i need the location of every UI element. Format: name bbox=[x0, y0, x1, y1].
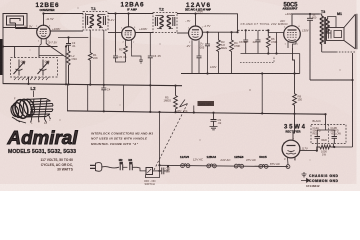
variable capacitor C1B bbox=[38, 60, 49, 76]
wire: osc feedback line bbox=[39, 56, 66, 58]
chassis ground legend bbox=[302, 172, 307, 177]
capacitor C5 screen bypass bbox=[113, 52, 126, 62]
wire: C14A lead to cathode line bbox=[316, 144, 318, 151]
junction bbox=[114, 12, 116, 14]
B- bus wire bbox=[67, 111, 326, 114]
wire: gang rotor to ground bus bbox=[28, 77, 30, 84]
wire: stub at volume tap bbox=[193, 106, 195, 113]
resistor R3 bbox=[217, 32, 221, 73]
heater pin V5 35W4 bbox=[286, 165, 290, 169]
wiper arrow of R5 bbox=[180, 100, 188, 108]
wire: T2 return with capacitor C6 bbox=[148, 33, 153, 112]
wire: R5 top to ground bus bbox=[175, 86, 177, 96]
variable capacitor C1A bbox=[14, 60, 25, 76]
heater pins V2 12BA6 bbox=[207, 164, 217, 168]
output transformer T3 bbox=[320, 14, 331, 52]
wire: V3 plate stub bbox=[195, 14, 197, 27]
resistor R7 bbox=[317, 144, 334, 151]
wire: link bus to ground bus bbox=[67, 84, 69, 110]
wire: antenna to V1 grid bbox=[16, 29, 38, 32]
tube V5 35W4 rectifier bbox=[282, 140, 317, 160]
label tube V1 12BE6 bbox=[36, 2, 59, 12]
wire: C1B stator up bbox=[38, 47, 40, 58]
IF transformer T2 bbox=[153, 13, 177, 33]
label tube V3 12AV6 bbox=[185, 2, 211, 12]
capacitor C9 bbox=[210, 113, 218, 130]
heater pins V4 50C5 bbox=[259, 164, 268, 168]
wire: speaker field drop bbox=[352, 53, 354, 80]
oscillator coil L3 bbox=[67, 51, 70, 84]
resistor R4 bbox=[230, 32, 234, 73]
loop antenna L1 spiral bbox=[3, 14, 27, 29]
wire: switch riser to B- bus bbox=[145, 112, 159, 178]
ground bus wire bbox=[3, 84, 182, 86]
wire: audio line bbox=[241, 53, 300, 55]
wire: T1 secondary return bbox=[103, 30, 105, 88]
wire: top bus T2 to audio coupling drop bbox=[177, 14, 238, 33]
wire: V3 cathode bbox=[197, 54, 202, 74]
wire: top bus T1 to T2 bbox=[108, 13, 153, 15]
wire: 12BA6 cathode to bus bbox=[132, 48, 144, 63]
capacitor C9b bbox=[256, 30, 261, 53]
wire: bus corner down to C14 bbox=[325, 114, 327, 124]
dashed bracket bbox=[240, 56, 274, 63]
label tube V2 12BA6 bbox=[121, 2, 144, 12]
wire: osc vertical to ground bus bbox=[65, 47, 67, 85]
coupling capacitor C10 bbox=[307, 14, 313, 80]
resistor R1 bbox=[88, 30, 92, 85]
wire: 50C5 cathode down bbox=[293, 48, 295, 94]
wire: V4 grid return bbox=[276, 33, 278, 54]
tuning gang C1 dashed box bbox=[11, 58, 58, 78]
wire: V1 plate top to T1 bbox=[44, 14, 84, 26]
heater pins V3 12AV6 bbox=[181, 164, 190, 168]
heater bus wire bbox=[160, 165, 289, 166]
speaker field dashed lead bbox=[322, 51, 336, 53]
wire: AVC line to tuning gang bbox=[3, 46, 58, 48]
wire: bus link riser bbox=[87, 85, 89, 112]
wire: heater into 35W4 pin3 bbox=[287, 158, 290, 165]
resistor R8 bbox=[293, 94, 297, 141]
tube V3 12AV6 detector bbox=[177, 26, 238, 54]
scan specks bbox=[30, 8, 341, 161]
wire: antenna return down left bbox=[2, 28, 4, 84]
electrolytic capacitor C14 (dual) bbox=[311, 125, 346, 144]
wire: R7 to B+ line bbox=[333, 146, 352, 148]
capacitor C12 line filter bbox=[160, 166, 169, 174]
wire: V1 osc grid line bbox=[58, 37, 88, 39]
capacitor C4 AVC filter bbox=[101, 88, 106, 111]
capacitor C7 bbox=[205, 32, 210, 73]
wire: AVC drop to B- bus bbox=[261, 74, 263, 114]
label SW1 ON R5 bbox=[198, 101, 215, 106]
switch SW1 bbox=[146, 168, 160, 175]
wire: L2 lead bbox=[33, 91, 35, 97]
wire: B+ feed right bbox=[310, 80, 353, 147]
capacitor C3 bbox=[66, 38, 71, 52]
speaker M1 bbox=[327, 14, 357, 50]
dashed mechanical link SW1 to R5 bbox=[154, 104, 188, 171]
paper background bbox=[0, 0, 360, 191]
interlock connector M3 bbox=[129, 162, 146, 171]
wire: bus link riser bbox=[123, 85, 125, 112]
power plug P1 bbox=[90, 163, 119, 172]
wire: corner into 50C5 cathode bbox=[299, 54, 301, 74]
common ground legend bbox=[301, 179, 310, 183]
wire: V3 grid return bbox=[191, 48, 193, 74]
scan edge artifact bar bbox=[0, 39, 2, 75]
tube V1 12BE6 converter bbox=[37, 25, 83, 55]
tube V2 12BA6 IF amplifier bbox=[108, 14, 153, 49]
tube V4 50C5 audio output bbox=[277, 14, 320, 48]
ganging hatch marks bbox=[14, 77, 49, 80]
wire: padder dashed link bbox=[238, 29, 269, 31]
loop antenna L2 physical detail bbox=[10, 98, 53, 123]
IF transformer T1 bbox=[83, 12, 108, 31]
interlock connector M2 bbox=[120, 162, 128, 171]
resistor R2 bbox=[124, 45, 128, 62]
resistor R5b bbox=[266, 30, 270, 53]
wire: detector load line bbox=[181, 73, 300, 75]
capacitor C8 bbox=[243, 30, 248, 53]
heater pins V1 12BE6 bbox=[234, 164, 243, 168]
wire: screen feed drop x115.5 bbox=[115, 14, 117, 53]
volume control R5 bbox=[174, 96, 178, 113]
wire: C1A stator up bbox=[14, 47, 16, 58]
label tube V4 50C5 bbox=[283, 3, 299, 11]
